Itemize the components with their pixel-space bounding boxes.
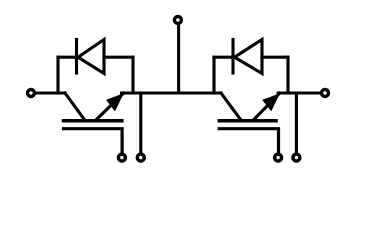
wire emitter aux lead down Q2 (295, 93, 298, 153)
wire diode box right edge (131, 57, 134, 93)
terminal T2 (top center terminal) (174, 17, 181, 24)
wire diode box left edge D2 (212, 57, 215, 93)
wire diode box right edge D2 (286, 57, 289, 93)
transistor Q2 gate bar and gate lead down (219, 129, 278, 153)
wire emitter diagonal Q1 (96, 93, 124, 120)
terminal T1 (left collector terminal) (28, 90, 35, 97)
wire top terminal stem (177, 26, 180, 93)
transistor Q1 gate bar and gate lead down (64, 129, 123, 153)
transistor Q2 body bar (219, 119, 276, 123)
wire emitter aux lead down Q1 (139, 93, 142, 153)
wire collector lead left (37, 91, 66, 94)
wire center bus (122, 91, 222, 94)
wire collector diagonal Q2 (221, 93, 241, 120)
wire diode box top right (104, 56, 133, 59)
diode D1 cathode bar (75, 40, 78, 74)
wire diode box top right D2 (262, 56, 288, 59)
wire diode box left edge (56, 57, 59, 93)
arrow emitter Q1 (106, 93, 124, 111)
terminal G2 (gate terminal) (275, 154, 282, 161)
diode D2 cathode bar (231, 40, 234, 74)
wire diode box top left (58, 56, 77, 59)
wire emitter diagonal Q2 (253, 93, 280, 120)
wire collector diagonal Q1 (65, 93, 85, 120)
transistor Q1 body bar (64, 119, 122, 123)
terminal E1 (emitter aux terminal) (137, 154, 144, 161)
diode D1 triangle (78, 40, 104, 74)
terminal E2 (emitter aux terminal) (293, 154, 300, 161)
wire diode box top left D2 (214, 56, 233, 59)
terminal G1 (gate terminal) (118, 154, 125, 161)
wire emitter lead right (278, 91, 321, 94)
terminal T3 (right emitter terminal) (322, 90, 329, 97)
arrow emitter Q2 (262, 93, 280, 111)
diode D2 triangle (235, 40, 263, 74)
